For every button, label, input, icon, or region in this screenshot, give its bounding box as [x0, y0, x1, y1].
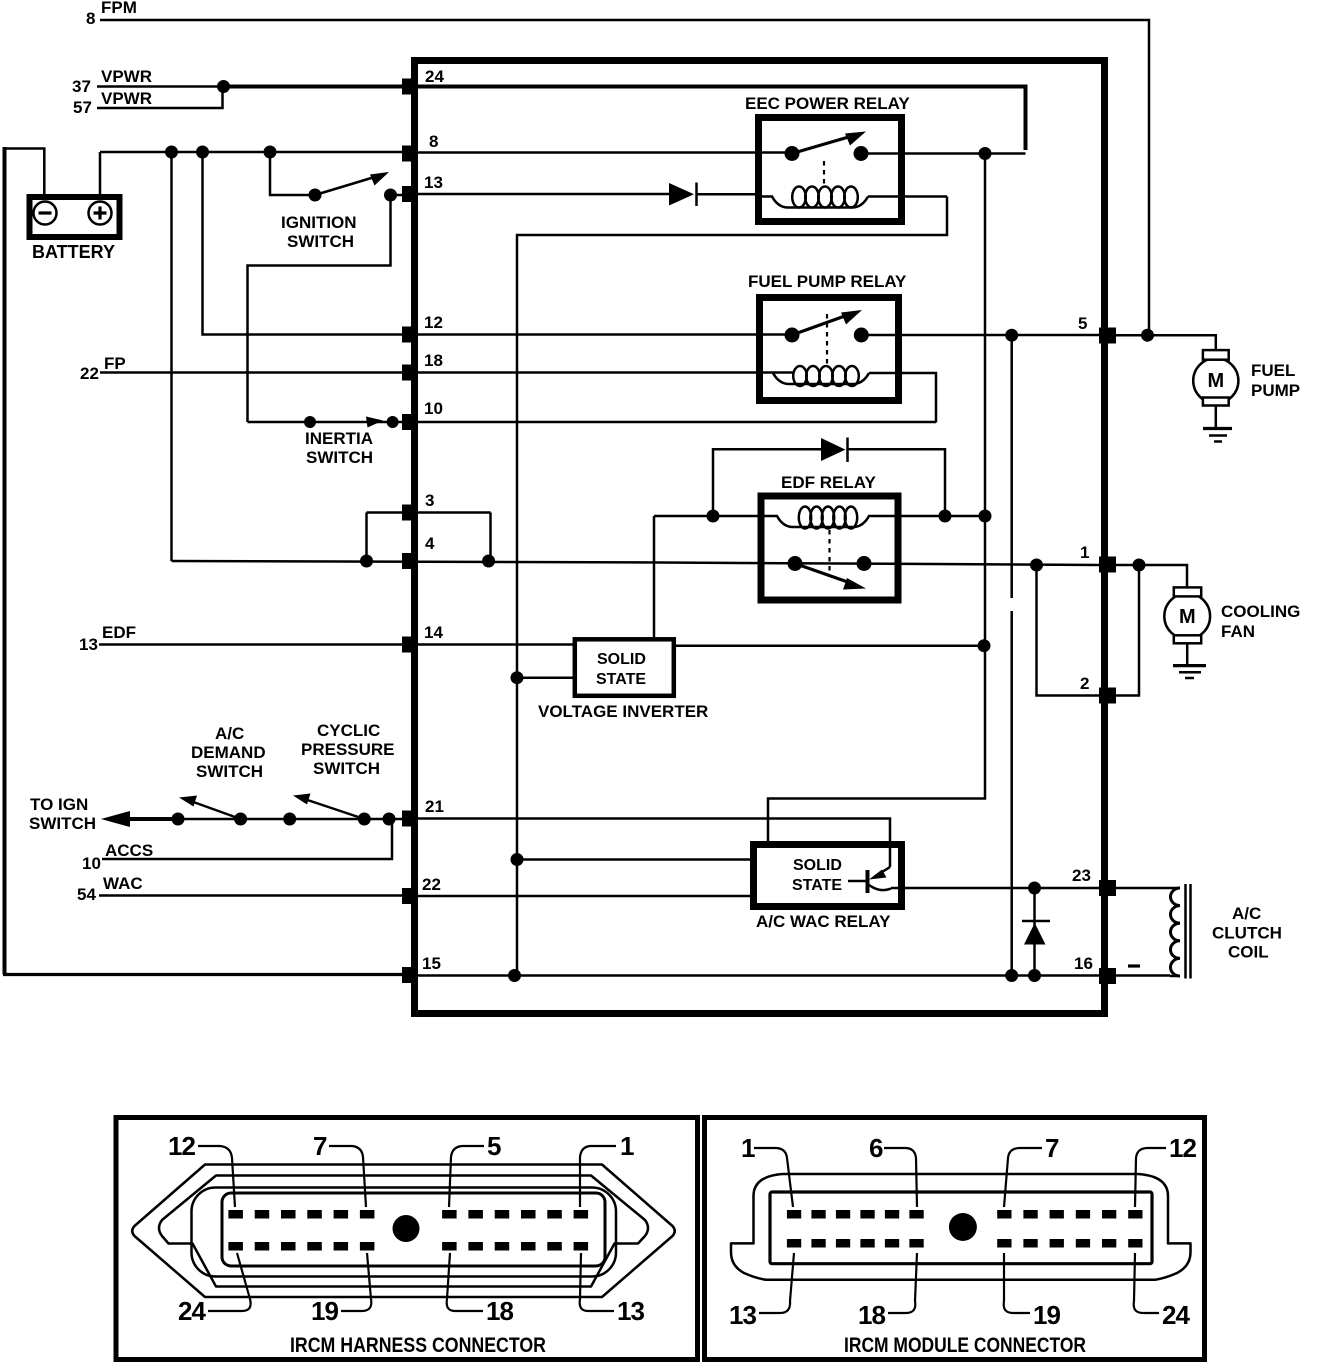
module pin label 6: [869, 1133, 917, 1207]
svg-text:VPWR: VPWR: [101, 67, 152, 86]
svg-text:24: 24: [1162, 1300, 1191, 1330]
voltage inverter U1: [538, 639, 708, 721]
module pin label 1: [741, 1133, 793, 1207]
wire pin 1 to pin 2 loop: [1037, 565, 1140, 696]
module pin label 19: [1004, 1253, 1061, 1330]
svg-text:SWITCH: SWITCH: [196, 762, 263, 781]
pin 3: [402, 491, 434, 521]
junction pin 1 right: [1133, 559, 1146, 572]
wire WAC relay left input: [517, 858, 752, 861]
svg-text:FP: FP: [104, 354, 126, 373]
svg-text:24: 24: [178, 1296, 207, 1326]
harness pin label 5: [449, 1131, 501, 1207]
svg-text:54: 54: [77, 885, 96, 904]
harness pin label 7: [313, 1131, 366, 1207]
svg-text:CLUTCH: CLUTCH: [1212, 924, 1282, 943]
svg-text:FPM: FPM: [101, 0, 137, 17]
module connector outline: [731, 1174, 1191, 1280]
net WAC label 54: [77, 874, 143, 904]
wire battery negative to pin 15 return: [3, 147, 414, 975]
pin 16: [1074, 954, 1116, 984]
net ACCS label 10: [82, 841, 153, 873]
pin 5: [1078, 314, 1116, 344]
svg-text:24: 24: [425, 67, 444, 86]
pin 18: [402, 351, 443, 381]
pin 8: [402, 132, 438, 162]
wire WAC to pin 22: [99, 894, 404, 897]
svg-text:VPWR: VPWR: [101, 89, 152, 108]
inertia switch S2: [248, 416, 405, 467]
wire EEC coil return to pin 15 line: [517, 197, 947, 976]
wire pin 12 to fuel pump relay: [404, 333, 792, 336]
svg-text:SOLID: SOLID: [793, 857, 842, 874]
junction inverter input 2: [511, 671, 524, 684]
IRCM module connector panel: [705, 1118, 1205, 1360]
a/c clutch coil L4: [1170, 884, 1282, 979]
wire bus A down to pin 4 line: [170, 152, 173, 561]
svg-text:13: 13: [424, 173, 443, 192]
junction VPWR: [217, 80, 230, 93]
pin 22: [402, 875, 441, 904]
junction bus A: [165, 146, 178, 159]
net EDF label 13: [79, 623, 136, 654]
net FPM label 8: [86, 0, 137, 28]
wire inverter output to EDF feed: [675, 644, 985, 647]
wire VPWR 37: [97, 85, 224, 88]
svg-text:22: 22: [80, 364, 99, 383]
wire pin 18 to fuel relay coil: [404, 371, 793, 374]
wire EEC output down to EDF coil and WAC relay: [768, 154, 985, 845]
svg-text:M: M: [1208, 370, 1225, 392]
junction bus B: [196, 146, 209, 159]
svg-text:1: 1: [1080, 543, 1089, 562]
diode CR3 clutch clamp: [1022, 888, 1050, 976]
wire battery positive bus: [100, 152, 414, 197]
ignition switch S1: [281, 172, 397, 251]
pin 2: [1080, 674, 1116, 704]
junction pin 5 line left: [1005, 329, 1018, 342]
EDF relay coil L3: [654, 507, 985, 529]
wire bus C to ignition switch: [270, 152, 315, 195]
transistor Q1: [848, 867, 891, 893]
ground cooling fan: [1173, 666, 1206, 678]
svg-text:COIL: COIL: [1228, 943, 1269, 962]
module pin label 7: [1004, 1133, 1059, 1207]
svg-text:DEMAND: DEMAND: [191, 743, 266, 762]
junction pin 4 left: [360, 555, 373, 568]
wire fuel relay switch to pin 5: [861, 334, 1099, 337]
junction WAC relay feed: [511, 853, 524, 866]
svg-text:SWITCH: SWITCH: [287, 232, 354, 251]
net VPWR label 37: [72, 67, 152, 96]
wire pin 10 to fuel coil return: [404, 421, 936, 424]
pin 14: [402, 623, 443, 653]
harness pin label 12: [168, 1131, 235, 1207]
pin 13: [402, 173, 443, 202]
svg-text:M: M: [1179, 606, 1196, 628]
svg-text:EDF RELAY: EDF RELAY: [781, 473, 876, 492]
wire inverter input 2: [517, 676, 574, 679]
svg-text:EEC POWER RELAY: EEC POWER RELAY: [745, 94, 910, 113]
pin 4: [402, 534, 435, 569]
svg-text:57: 57: [73, 98, 92, 117]
wire pin 14 to inverter: [404, 643, 574, 646]
svg-text:VOLTAGE INVERTER: VOLTAGE INVERTER: [538, 702, 708, 721]
junction pin 1 left: [1030, 559, 1043, 572]
junction EDF coil feed: [979, 510, 992, 523]
net FP label 22: [80, 354, 126, 383]
wire EDF to pin 14: [99, 643, 404, 646]
battery B1: [30, 197, 120, 262]
wire pin 4 line to EDF switch and pin 1: [172, 561, 1100, 565]
svg-text:16: 16: [1074, 954, 1093, 973]
svg-text:12: 12: [1169, 1133, 1197, 1163]
module pin label 13: [729, 1253, 794, 1330]
fuel pump relay K2: [748, 272, 907, 401]
svg-text:SOLID: SOLID: [597, 651, 646, 668]
module connector title: [844, 1334, 1086, 1357]
harness pin label 19: [311, 1253, 371, 1326]
svg-text:8: 8: [86, 9, 95, 28]
junction FPM at pin 5: [1141, 329, 1154, 342]
minus polarity label: [1128, 964, 1140, 967]
svg-text:5: 5: [1078, 314, 1087, 333]
svg-text:18: 18: [424, 351, 443, 370]
module pin label 12: [1135, 1133, 1197, 1207]
svg-text:PRESSURE: PRESSURE: [301, 740, 395, 759]
wire pin 24 to EEC relay switch (heavy): [405, 87, 1026, 151]
svg-text:13: 13: [729, 1300, 757, 1330]
svg-text:IRCM HARNESS CONNECTOR: IRCM HARNESS CONNECTOR: [290, 1334, 546, 1357]
svg-text:SWITCH: SWITCH: [29, 814, 96, 833]
module center hole: [949, 1213, 977, 1241]
EEC relay coil L1: [760, 187, 947, 208]
harness pins top row: [228, 1210, 588, 1219]
svg-text:8: 8: [429, 132, 438, 151]
wire VPWR 57: [97, 87, 223, 109]
harness connector shell rect: [222, 1193, 605, 1266]
junction diode top: [1028, 882, 1041, 895]
svg-text:13: 13: [79, 635, 98, 654]
svg-text:19: 19: [1033, 1300, 1061, 1330]
fuel pump relay coil L2: [773, 366, 936, 423]
junction EDF coil left: [707, 510, 720, 523]
svg-text:IGNITION: IGNITION: [281, 213, 357, 232]
diode CR1 on pin 13 line: [404, 183, 760, 207]
junction ACCS at pin 21: [383, 813, 396, 826]
harness pin label 24: [178, 1253, 251, 1326]
node TO IGN SWITCH: [29, 795, 96, 833]
pin 15: [402, 954, 441, 983]
wire transistor emitter to pin 23: [891, 887, 1099, 890]
cooling fan motor M2: [1164, 587, 1300, 664]
ground fuel pump: [1203, 429, 1232, 442]
harness pin label 13: [580, 1253, 645, 1326]
junction inverter output: [978, 639, 991, 652]
junction EEC output: [979, 147, 992, 160]
svg-text:10: 10: [82, 854, 101, 873]
svg-text:19: 19: [311, 1296, 339, 1326]
net VPWR label 57: [73, 89, 152, 117]
wire pin 22 to WAC relay: [404, 895, 752, 898]
svg-text:23: 23: [1072, 866, 1091, 885]
svg-text:PUMP: PUMP: [1251, 381, 1300, 400]
svg-text:COOLING: COOLING: [1221, 602, 1300, 621]
wire pin 3 jumper: [367, 513, 491, 562]
wire ignition switch down to inertia switch: [248, 195, 391, 422]
svg-text:1: 1: [620, 1131, 634, 1161]
svg-text:TO IGN: TO IGN: [30, 795, 88, 814]
harness connector outline inner: [192, 1188, 617, 1277]
harness connector title: [290, 1334, 546, 1357]
EDF relay K3: [761, 473, 898, 600]
wire bus B down to pin 12: [203, 152, 405, 335]
svg-text:INERTIA: INERTIA: [305, 429, 373, 448]
wire pin 1 to cooling fan: [1116, 565, 1187, 588]
wire pin 8 to EEC relay: [404, 151, 792, 154]
svg-text:EDF: EDF: [102, 623, 136, 642]
pin 21: [402, 797, 444, 827]
pin 23: [1072, 866, 1116, 896]
pin 12: [402, 313, 443, 343]
svg-text:10: 10: [424, 399, 443, 418]
harness pin label 18: [447, 1253, 514, 1326]
svg-text:18: 18: [486, 1296, 514, 1326]
svg-text:14: 14: [424, 623, 443, 642]
svg-text:6: 6: [869, 1133, 883, 1163]
svg-text:22: 22: [422, 875, 441, 894]
EEC power relay K1: [745, 94, 910, 222]
wire pin 23 to clutch coil: [1116, 887, 1170, 890]
svg-text:13: 13: [617, 1296, 645, 1326]
svg-text:A/C: A/C: [1232, 904, 1261, 923]
IRCM harness connector panel: [116, 1118, 698, 1360]
svg-text:1: 1: [741, 1133, 755, 1163]
A/C WAC relay U2: [754, 845, 902, 932]
wire ignition to pin 13: [391, 194, 405, 197]
harness connector outline middle: [159, 1176, 648, 1287]
wire ACCS to pin 21: [102, 819, 392, 859]
wire VPWR to pin 24 (heavy): [224, 85, 405, 89]
module pin label 18: [858, 1253, 917, 1330]
pin 10: [402, 399, 443, 430]
svg-text:STATE: STATE: [596, 671, 646, 688]
junction pin 16 line left: [1005, 969, 1018, 982]
svg-text:IRCM MODULE CONNECTOR: IRCM MODULE CONNECTOR: [844, 1334, 1086, 1357]
wire pin 16 to clutch coil: [1116, 974, 1170, 977]
fuel pump motor M1: [1193, 350, 1300, 427]
harness connector outline outer: [132, 1165, 675, 1298]
svg-text:7: 7: [313, 1131, 327, 1161]
svg-text:7: 7: [1045, 1133, 1059, 1163]
module pins bottom row: [787, 1239, 1143, 1248]
svg-text:3: 3: [425, 491, 434, 510]
junction bus C: [264, 146, 277, 159]
wire to ign switch arrow (heavy): [101, 811, 178, 827]
IRCM module main box: [415, 61, 1105, 1014]
a/c demand switch S3: [172, 724, 405, 826]
wire pin 21 to transistor: [404, 819, 890, 868]
diode CR2 across EDF coil: [713, 438, 945, 517]
wire FPM from pin 8 label to pin 5 net: [100, 20, 1149, 332]
wire pin 5 to fuel pump: [1116, 335, 1216, 351]
junction pin 4 right: [482, 555, 495, 568]
junction pin 15 line: [508, 969, 521, 982]
svg-text:5: 5: [487, 1131, 501, 1161]
wire EDF coil to voltage inverter: [653, 516, 656, 639]
wire FP to pin 18: [100, 371, 404, 374]
svg-text:FUEL PUMP RELAY: FUEL PUMP RELAY: [748, 272, 907, 291]
svg-text:2: 2: [1080, 674, 1089, 693]
svg-text:12: 12: [424, 313, 443, 332]
module connector shell rect: [770, 1192, 1152, 1264]
svg-text:A/C WAC RELAY: A/C WAC RELAY: [756, 912, 891, 931]
svg-text:12: 12: [168, 1131, 196, 1161]
svg-text:CYCLIC: CYCLIC: [317, 721, 380, 740]
svg-text:A/C: A/C: [215, 724, 244, 743]
module pins top row: [787, 1210, 1143, 1219]
svg-text:WAC: WAC: [103, 874, 143, 893]
junction EDF coil right: [939, 510, 952, 523]
junction diode bottom: [1028, 969, 1041, 982]
wire pin 15 to pin 16: [416, 974, 1099, 977]
cyclic pressure switch S4: [283, 721, 394, 826]
wire EEC switch contact to corner: [861, 152, 1026, 155]
svg-text:FUEL: FUEL: [1251, 361, 1295, 380]
harness center hole: [393, 1215, 420, 1242]
svg-text:37: 37: [72, 77, 91, 96]
svg-text:FAN: FAN: [1221, 622, 1255, 641]
harness pins bottom row: [228, 1242, 588, 1251]
wire pin 5 to pin 16 vertical: [1010, 335, 1013, 975]
svg-text:4: 4: [425, 534, 435, 553]
svg-text:ACCS: ACCS: [105, 841, 153, 860]
svg-text:SWITCH: SWITCH: [313, 759, 380, 778]
svg-text:21: 21: [425, 797, 444, 816]
pin 24: [402, 67, 444, 95]
svg-text:STATE: STATE: [792, 877, 842, 894]
pin 1: [1080, 543, 1116, 573]
module pin label 24: [1134, 1253, 1191, 1330]
svg-text:SWITCH: SWITCH: [306, 448, 373, 467]
svg-text:18: 18: [858, 1300, 886, 1330]
svg-text:15: 15: [422, 954, 441, 973]
harness pin label 1: [580, 1131, 634, 1207]
svg-text:BATTERY: BATTERY: [32, 242, 115, 262]
